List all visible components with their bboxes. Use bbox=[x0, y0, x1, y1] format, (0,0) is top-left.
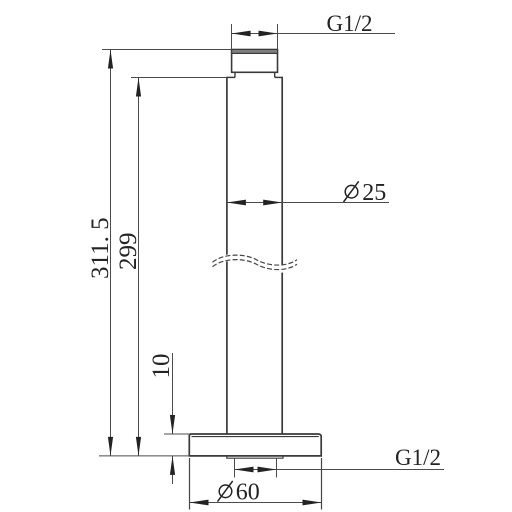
thread relief neck below collar bbox=[234, 72, 236, 77]
dimension 311.5 bottom arrow bbox=[108, 437, 113, 456]
pipe top shoulder right bbox=[275, 76, 283, 78]
diameter 60 extension line left bbox=[189, 458, 191, 510]
pipe body outline (right edge) bbox=[281, 77, 283, 434]
dimension 311.5 line bbox=[110, 50, 112, 456]
extension line bottom of flange (shared) bbox=[99, 455, 189, 457]
break symbol: white mask band over pipe bbox=[209, 254, 300, 273]
diameter 60 left arrow bbox=[190, 500, 209, 506]
dimension 299 bottom arrow bbox=[136, 437, 141, 456]
top collar G1/2 threaded boss bbox=[232, 50, 278, 73]
svg-text:G1/2: G1/2 bbox=[395, 445, 441, 470]
pipe body outline (left edge) bbox=[226, 77, 228, 434]
diameter 60 dimension line bbox=[190, 502, 322, 504]
diameter 25 right arrow bbox=[263, 200, 282, 206]
dimension 311.5 top arrow bbox=[108, 50, 113, 69]
svg-text:10: 10 bbox=[148, 354, 175, 379]
bottom thread stub edges / extension lines bbox=[234, 458, 236, 477]
G1/2 top extension line left bbox=[231, 24, 233, 50]
svg-text:25: 25 bbox=[362, 180, 386, 206]
pipe top shoulder left bbox=[226, 76, 235, 78]
dimension 299 line bbox=[138, 78, 140, 456]
diameter 60 right arrow bbox=[303, 500, 322, 506]
G1/2 bottom right arrow bbox=[258, 467, 277, 473]
svg-text:299: 299 bbox=[115, 233, 142, 271]
G1/2 top extension line right bbox=[277, 24, 279, 50]
flange top inner edge line bbox=[192, 436, 319, 438]
diameter 60 extension line right bbox=[321, 458, 323, 510]
svg-text:60: 60 bbox=[236, 480, 260, 506]
dimension 10 down arrow bbox=[170, 415, 175, 434]
diameter 25 dimension line bbox=[227, 202, 389, 204]
G1/2 bottom left arrow bbox=[235, 467, 254, 473]
dimension 10 upper line bbox=[172, 353, 174, 434]
diameter 25 symbol bbox=[344, 181, 359, 202]
G1/2 top right arrow bbox=[259, 31, 278, 37]
dimension 10 up arrow bbox=[170, 456, 175, 475]
break wavy line upper (dashed) bbox=[213, 255, 298, 265]
G1/2 top dimension/leader line bbox=[232, 33, 396, 35]
dimension 10 extension line at flange top bbox=[164, 433, 189, 435]
dimension 10 lower line bbox=[172, 456, 174, 484]
diameter 25 left arrow bbox=[227, 200, 246, 206]
diameter 60 symbol bbox=[218, 481, 233, 502]
break wavy line lower (dashed) bbox=[213, 260, 298, 270]
G1/2 bottom dimension/leader line bbox=[235, 469, 445, 471]
thread chamfer band (gray) at collar top bbox=[232, 50, 276, 53]
extension line top of pipe (299) bbox=[131, 77, 227, 79]
flange plate bbox=[189, 434, 321, 456]
G1/2 top left arrow bbox=[232, 31, 251, 37]
extension line top of part (311.5) bbox=[102, 49, 232, 51]
dimension 299 top arrow bbox=[136, 78, 141, 97]
svg-text:G1/2: G1/2 bbox=[327, 11, 373, 36]
flange bottom lip bbox=[227, 456, 283, 458]
svg-text:311. 5: 311. 5 bbox=[87, 217, 114, 279]
